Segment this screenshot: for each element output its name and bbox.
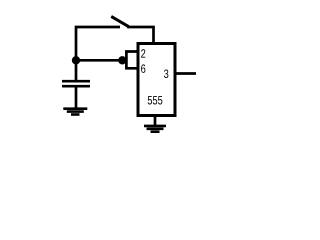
op-amp/IC U1 555 timer box bbox=[138, 44, 175, 116]
wire: bracket tying pin 2 and pin 6 bbox=[126, 52, 138, 69]
value label 555 bbox=[148, 96, 163, 104]
ground (under capacitor) bbox=[63, 109, 87, 115]
node B junction dot (pins 2/6 tie) bbox=[118, 56, 126, 64]
wire: node A to node B (horizontal) bbox=[76, 59, 122, 62]
pin label 6 bbox=[141, 64, 145, 72]
pin label 2 bbox=[141, 49, 145, 57]
capacitor C1 bottom plate bbox=[62, 85, 90, 88]
wire: 555 ground pin (bottom) bbox=[154, 116, 157, 126]
wire: left branch top corner (vertical + top horizontal to switch left contact) bbox=[76, 27, 120, 60]
wire: switch right contact to top pin of 555 bbox=[127, 27, 153, 44]
ground (under 555) bbox=[144, 126, 166, 132]
pin label 3 bbox=[164, 70, 168, 78]
wire: pin 3 output stub bbox=[177, 72, 197, 75]
node A junction dot (capacitor tap) bbox=[72, 56, 80, 64]
switch S1 lever (open, pivoted at right) bbox=[111, 16, 128, 26]
wire: capacitor to ground bbox=[75, 86, 78, 107]
capacitor C1 top plate bbox=[62, 80, 90, 83]
wire: node A down to capacitor bbox=[75, 60, 78, 80]
